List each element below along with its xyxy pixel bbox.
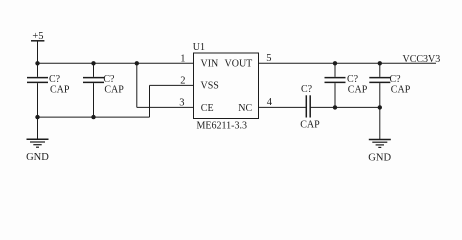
svg-text:GND: GND: [368, 153, 391, 164]
svg-text:CAP: CAP: [104, 84, 124, 95]
capacitor C1: [27, 63, 70, 117]
svg-text:C?: C?: [301, 84, 313, 95]
svg-text:5: 5: [266, 53, 271, 64]
svg-text:VOUT: VOUT: [225, 59, 253, 70]
svg-text:VIN: VIN: [201, 59, 219, 70]
ground GND left: [26, 117, 49, 163]
node C4 bottom junction: [333, 105, 337, 109]
wire VOUT net (VCC3V3): [259, 62, 437, 64]
svg-text:1: 1: [180, 54, 185, 65]
wire VIN net (top left): [38, 62, 194, 64]
node CE tie junction: [135, 61, 139, 65]
power flag +5: [31, 41, 44, 64]
svg-text:CAP: CAP: [348, 84, 368, 95]
svg-text:CAP: CAP: [300, 120, 320, 131]
svg-text:CAP: CAP: [391, 84, 411, 95]
wire NC pin 4: [259, 106, 307, 108]
node C5 bottom junction: [378, 105, 382, 109]
svg-text:CAP: CAP: [50, 84, 70, 95]
svg-text:3: 3: [179, 97, 184, 108]
capacitor C2: [83, 63, 124, 117]
ground GND right: [368, 107, 391, 163]
wire CE tie (VIN to CE pin): [137, 63, 194, 107]
capacitor C3 (series on NC line): [300, 84, 320, 130]
capacitor C4: [325, 63, 368, 107]
node C2 bottom junction: [91, 115, 95, 119]
svg-text:NC: NC: [238, 103, 252, 114]
svg-text:GND: GND: [26, 152, 49, 163]
wire VSS to ground bus: [150, 85, 194, 117]
svg-text:VSS: VSS: [201, 81, 219, 92]
svg-text:CE: CE: [201, 103, 214, 114]
wire C3 to capacitor bottoms: [311, 106, 380, 108]
wire ground bus left: [38, 116, 150, 118]
capacitor C5: [369, 63, 410, 107]
svg-text:2: 2: [180, 76, 185, 87]
node C5 top junction: [378, 61, 382, 65]
node C2 top junction: [91, 61, 95, 65]
svg-text:ME6211-3.3: ME6211-3.3: [197, 121, 247, 132]
node C1 bottom junction: [35, 115, 39, 119]
node +5/C1 junction: [35, 61, 39, 65]
svg-text:VCC3V3: VCC3V3: [403, 54, 441, 65]
svg-text:U1: U1: [193, 42, 205, 53]
svg-text:4: 4: [267, 97, 273, 108]
IC U1 body: [194, 53, 259, 119]
svg-text:+5: +5: [32, 31, 43, 42]
node C4 top junction: [333, 61, 337, 65]
